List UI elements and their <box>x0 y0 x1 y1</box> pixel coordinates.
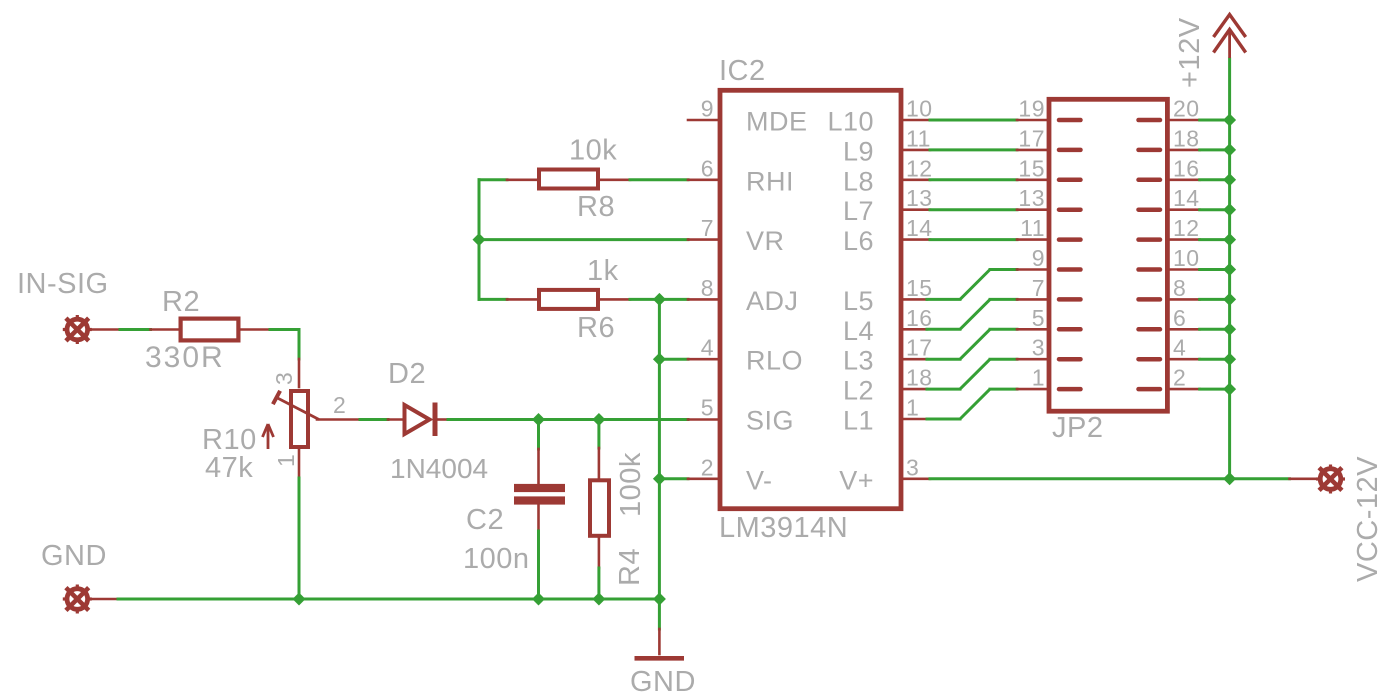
port label SIG of IC2 <box>746 406 794 436</box>
op-amp IC2 body <box>720 90 901 508</box>
junction bus row 9 <box>1223 353 1236 366</box>
svg-text:2: 2 <box>333 392 346 418</box>
svg-text:10: 10 <box>1173 245 1200 271</box>
svg-text:6: 6 <box>701 155 714 181</box>
junction bus row 10 <box>1223 383 1236 396</box>
wire SIG to C2 <box>537 420 540 484</box>
resistor R4 <box>590 480 609 536</box>
junction bus row 2 <box>1223 143 1236 156</box>
svg-text:4: 4 <box>1173 335 1186 361</box>
net label VCC-12V <box>1352 456 1384 582</box>
pin number 4 of IC2 <box>701 335 714 361</box>
svg-text:13: 13 <box>1018 185 1045 211</box>
resistor R6 <box>539 290 598 309</box>
pin contact left row 8 of JP2 <box>1059 327 1081 332</box>
label R4 <box>614 548 646 586</box>
pin number 8 of JP2 <box>1173 275 1186 301</box>
wire RLO to IC <box>659 358 717 361</box>
svg-text:14: 14 <box>906 215 933 241</box>
wire JP2 pin 20 to +12V bus <box>1170 119 1230 122</box>
pin number 9 of IC2 <box>701 96 714 122</box>
junction bus row 7 <box>1223 293 1236 306</box>
pin contact left row 4 of JP2 <box>1059 207 1081 212</box>
pin number 3 of JP2 <box>1032 335 1045 361</box>
svg-text:R8: R8 <box>577 191 615 223</box>
svg-text:11: 11 <box>1020 215 1045 241</box>
junction bus V+ <box>1223 472 1236 485</box>
svg-text:R6: R6 <box>577 312 615 344</box>
value 1N4004 <box>390 453 488 484</box>
svg-text:100k: 100k <box>615 452 647 517</box>
svg-text:6: 6 <box>1173 305 1186 331</box>
svg-text:12: 12 <box>906 155 933 181</box>
wire JP2 pin 2 to +12V bus <box>1170 388 1230 391</box>
port label L1 of IC2 <box>843 406 874 436</box>
svg-text:2: 2 <box>1173 365 1186 391</box>
wire IC L9 to JP2 <box>903 149 1049 152</box>
pin number 8 of IC2 <box>701 275 714 301</box>
net label GND left <box>41 540 107 572</box>
pin number 10 of IC2 <box>906 96 933 122</box>
wire JP2 pin 12 to +12V bus <box>1170 238 1230 241</box>
pin label 1 of R10 <box>273 454 299 467</box>
ground symbol <box>635 656 685 661</box>
junction bus row 1 <box>1223 114 1236 127</box>
label D2 <box>388 358 426 390</box>
svg-text:9: 9 <box>1032 245 1045 271</box>
pin number 1 of IC2 <box>906 395 919 421</box>
wire IC pin row 9 to JP2 diagonal <box>903 359 1049 389</box>
wire D2 to IC SIG pin <box>438 418 718 421</box>
junction rail GND stem <box>653 593 666 606</box>
pad GND <box>63 585 92 614</box>
pin number 6 of IC2 <box>701 155 714 181</box>
svg-text:18: 18 <box>1173 125 1200 151</box>
svg-text:16: 16 <box>906 305 933 331</box>
pin number 16 of IC2 <box>906 305 933 331</box>
svg-text:10: 10 <box>906 96 933 122</box>
wire IC L7 to JP2 <box>903 208 1049 211</box>
svg-text:+12V: +12V <box>1174 17 1206 88</box>
wire IC pin row 8 to JP2 diagonal <box>903 329 1049 359</box>
pin number 18 of IC2 <box>906 365 933 391</box>
svg-text:9: 9 <box>701 96 714 122</box>
value 100n <box>463 543 530 575</box>
svg-text:LM3914N: LM3914N <box>719 512 848 544</box>
pin number 12 of IC2 <box>906 155 933 181</box>
wire JP2 pin 4 to +12V bus <box>1170 358 1230 361</box>
wire JP2 pin 16 to +12V bus <box>1170 179 1230 182</box>
label R6 <box>577 312 615 344</box>
junction rail C2 <box>532 593 545 606</box>
pin number 7 of IC2 <box>701 215 714 241</box>
port label VR of IC2 <box>746 226 785 256</box>
svg-text:IC2: IC2 <box>719 55 766 87</box>
pin contact right row 9 of JP2 <box>1139 357 1161 362</box>
svg-text:11: 11 <box>906 125 931 151</box>
pin contact left row 9 of JP2 <box>1059 357 1081 362</box>
potentiometer R10 wiper <box>273 391 319 420</box>
svg-text:C2: C2 <box>466 504 504 536</box>
net label GND bottom <box>630 666 696 698</box>
svg-text:R4: R4 <box>614 548 646 586</box>
svg-text:20: 20 <box>1173 96 1200 122</box>
svg-text:100n: 100n <box>463 543 530 575</box>
svg-text:13: 13 <box>906 185 933 211</box>
svg-text:L9: L9 <box>843 136 874 166</box>
svg-text:R2: R2 <box>162 286 200 318</box>
svg-text:19: 19 <box>1018 96 1045 122</box>
wire to R6 <box>479 298 537 301</box>
pin contact right row 7 of JP2 <box>1139 297 1161 302</box>
wire ADJ net vertical <box>658 299 661 599</box>
value LM3914N <box>719 512 848 544</box>
port label L9 of IC2 <box>843 136 874 166</box>
label C2 <box>466 504 504 536</box>
port label L6 of IC2 <box>843 226 874 256</box>
supply symbol +12V <box>1214 15 1246 59</box>
svg-text:IN-SIG: IN-SIG <box>17 268 109 300</box>
svg-text:18: 18 <box>906 365 933 391</box>
svg-text:5: 5 <box>1032 305 1045 331</box>
value 100k of R4 <box>615 452 647 517</box>
svg-text:14: 14 <box>1173 185 1200 211</box>
ground rail wire <box>118 598 659 601</box>
svg-text:GND: GND <box>41 540 107 572</box>
port label RLO of IC2 <box>746 346 803 376</box>
junction bus row 3 <box>1223 173 1236 186</box>
junction at VR <box>473 233 486 246</box>
svg-text:3: 3 <box>906 454 919 480</box>
junction bus row 4 <box>1223 203 1236 216</box>
pin number 7 of JP2 <box>1032 275 1045 301</box>
junction RLO <box>653 353 666 366</box>
wire GND pad to rail <box>88 598 118 601</box>
GND symbol stem <box>658 599 661 654</box>
svg-text:15: 15 <box>906 275 933 301</box>
junction bus row 6 <box>1223 263 1236 276</box>
value 1k <box>587 255 619 287</box>
svg-text:L10: L10 <box>827 107 874 137</box>
svg-text:L2: L2 <box>843 376 874 406</box>
svg-text:V+: V+ <box>839 465 874 495</box>
pin number 5 of JP2 <box>1032 305 1045 331</box>
pin number 12 of JP2 <box>1173 215 1200 241</box>
svg-text:L7: L7 <box>843 196 874 226</box>
svg-text:1: 1 <box>1032 365 1045 391</box>
svg-text:GND: GND <box>630 666 696 698</box>
junction V- <box>653 472 666 485</box>
pad VCC-12V <box>1316 465 1345 494</box>
svg-text:L4: L4 <box>843 316 874 346</box>
pin number 13 of IC2 <box>906 185 933 211</box>
pin label 2 of R10 <box>333 392 346 418</box>
wire V- to IC <box>659 477 717 480</box>
junction SIG-R4 <box>592 413 605 426</box>
svg-text:12: 12 <box>1173 215 1200 241</box>
diode D2 <box>405 403 436 437</box>
wire R6 to IC ADJ pin <box>600 298 718 301</box>
port label L10 of IC2 <box>827 107 874 137</box>
svg-text:17: 17 <box>906 335 933 361</box>
junction ADJ <box>653 293 666 306</box>
wire R2 to R10 pin 3 <box>241 330 300 388</box>
svg-text:L8: L8 <box>843 166 874 196</box>
pin contact right row 4 of JP2 <box>1139 207 1161 212</box>
label IC2 <box>719 55 766 87</box>
port label V+ of IC2 <box>839 465 874 495</box>
resistor R2 <box>181 319 239 341</box>
wire IC L6 to JP2 <box>903 238 1049 241</box>
pin number 14 of IC2 <box>906 215 933 241</box>
svg-text:VR: VR <box>746 226 785 256</box>
pin stub MDE <box>688 119 718 122</box>
svg-text:L3: L3 <box>843 346 874 376</box>
value 330R <box>145 341 225 374</box>
svg-text:VCC-12V: VCC-12V <box>1352 456 1384 582</box>
svg-text:15: 15 <box>1018 155 1045 181</box>
pin number 17 of IC2 <box>906 335 933 361</box>
svg-text:SIG: SIG <box>746 406 794 436</box>
svg-text:2: 2 <box>701 454 714 480</box>
svg-text:10k: 10k <box>569 135 617 167</box>
svg-text:L5: L5 <box>843 286 874 316</box>
svg-text:4: 4 <box>701 335 714 361</box>
pin number 17 of JP2 <box>1018 125 1045 151</box>
svg-text:16: 16 <box>1173 155 1200 181</box>
value 47k <box>205 452 253 484</box>
pin contact right row 8 of JP2 <box>1139 327 1161 332</box>
resistor R8 <box>539 170 598 189</box>
wire IC L10 to JP2 <box>903 119 1049 122</box>
port label L7 of IC2 <box>843 196 874 226</box>
connector JP2 body <box>1049 99 1167 411</box>
port label V- of IC2 <box>746 465 773 495</box>
wire R4 to GND rail <box>598 538 601 599</box>
port label L3 of IC2 <box>843 346 874 376</box>
pin contact left row 2 of JP2 <box>1059 148 1081 153</box>
wire RHI to R8 <box>479 178 537 181</box>
pin contact left row 5 of JP2 <box>1059 237 1081 242</box>
potentiometer R10 arrow <box>263 424 274 449</box>
wire R10 pin1 to GND rail <box>298 449 301 599</box>
wire VR to IC <box>479 238 718 241</box>
pin contact left row 7 of JP2 <box>1059 297 1081 302</box>
pin contact right row 5 of JP2 <box>1139 237 1161 242</box>
capacitor C2 <box>514 484 565 505</box>
svg-text:47k: 47k <box>205 452 253 484</box>
pin number 1 of JP2 <box>1032 365 1045 391</box>
label R2 <box>162 286 200 318</box>
wire JP2 pin 6 to +12V bus <box>1170 328 1230 331</box>
wire IC pin row 10 to JP2 diagonal <box>903 389 1049 419</box>
junction bus row 5 <box>1223 233 1236 246</box>
wire pad IN-SIG to R2 <box>88 328 179 331</box>
port label MDE of IC2 <box>746 107 808 137</box>
svg-text:7: 7 <box>701 215 714 241</box>
pin number 4 of JP2 <box>1173 335 1186 361</box>
svg-text:5: 5 <box>701 395 714 421</box>
pin number 14 of JP2 <box>1173 185 1200 211</box>
port label L5 of IC2 <box>843 286 874 316</box>
pin number 18 of JP2 <box>1173 125 1200 151</box>
svg-text:ADJ: ADJ <box>746 286 799 316</box>
pin number 5 of IC2 <box>701 395 714 421</box>
pin contact left row 1 of JP2 <box>1059 118 1081 123</box>
pin contact right row 1 of JP2 <box>1139 118 1161 123</box>
port label L4 of IC2 <box>843 316 874 346</box>
pin contact left row 3 of JP2 <box>1059 178 1081 183</box>
pin number 13 of JP2 <box>1018 185 1045 211</box>
svg-text:7: 7 <box>1032 275 1045 301</box>
label R8 <box>577 191 615 223</box>
label JP2 <box>1052 412 1103 444</box>
pin contact left row 6 of JP2 <box>1059 267 1081 272</box>
pin number 10 of JP2 <box>1173 245 1200 271</box>
wire left vertical R8-R6 <box>478 180 481 300</box>
port label L2 of IC2 <box>843 376 874 406</box>
svg-text:V-: V- <box>746 465 773 495</box>
svg-text:L6: L6 <box>843 226 874 256</box>
pin number 11 of JP2 <box>1020 215 1045 241</box>
label R10 <box>202 424 257 456</box>
svg-text:1: 1 <box>273 454 299 467</box>
svg-text:JP2: JP2 <box>1052 412 1103 444</box>
wire JP2 pin 14 to +12V bus <box>1170 208 1230 211</box>
svg-text:3: 3 <box>1032 335 1045 361</box>
svg-text:MDE: MDE <box>746 107 808 137</box>
port label ADJ of IC2 <box>746 286 799 316</box>
pin contact right row 3 of JP2 <box>1139 178 1161 183</box>
pin number 6 of JP2 <box>1173 305 1186 331</box>
svg-text:330R: 330R <box>145 341 225 374</box>
svg-text:RLO: RLO <box>746 346 803 376</box>
port label L8 of IC2 <box>843 166 874 196</box>
pin number 20 of JP2 <box>1173 96 1200 122</box>
junction rail R10 <box>293 593 306 606</box>
svg-text:RHI: RHI <box>746 166 794 196</box>
junction bus row 8 <box>1223 323 1236 336</box>
svg-text:17: 17 <box>1018 125 1045 151</box>
value 10k <box>569 135 617 167</box>
pad IN-SIG <box>63 315 92 344</box>
wire IC pin row 6 to JP2 diagonal <box>903 270 1049 300</box>
wire R10 pin 2 to D2 <box>317 418 403 421</box>
pin number 2 of IC2 <box>701 454 714 480</box>
net label +12V <box>1174 17 1206 88</box>
pin number 2 of JP2 <box>1173 365 1186 391</box>
wire IC pin row 7 to JP2 diagonal <box>903 299 1049 329</box>
svg-text:8: 8 <box>701 275 714 301</box>
pin contact right row 2 of JP2 <box>1139 148 1161 153</box>
pin number 19 of JP2 <box>1018 96 1045 122</box>
svg-text:1N4004: 1N4004 <box>390 453 488 484</box>
pin number 3 of IC2 <box>906 454 919 480</box>
svg-text:1k: 1k <box>587 255 619 287</box>
pin label 3 of R10 <box>271 372 297 385</box>
svg-text:1: 1 <box>906 395 919 421</box>
junction rail R4 <box>592 593 605 606</box>
pin contact left row 10 of JP2 <box>1059 387 1081 392</box>
pin number 16 of JP2 <box>1173 155 1200 181</box>
wire SIG to R4 <box>597 420 600 479</box>
svg-text:3: 3 <box>271 372 297 385</box>
svg-text:8: 8 <box>1173 275 1186 301</box>
net label IN-SIG <box>17 268 109 300</box>
svg-text:L1: L1 <box>843 406 874 436</box>
wire JP2 pin 10 to +12V bus <box>1170 268 1230 271</box>
wire C2 to GND rail <box>537 505 540 599</box>
pin contact right row 6 of JP2 <box>1139 267 1161 272</box>
potentiometer R10 body <box>291 391 308 447</box>
wire +12V bus <box>1228 59 1231 479</box>
wire JP2 pin 8 to +12V bus <box>1170 298 1230 301</box>
pin number 15 of IC2 <box>906 275 933 301</box>
wire V+ to VCC pad <box>903 477 1319 480</box>
wire IC L8 to JP2 <box>903 179 1049 182</box>
svg-text:D2: D2 <box>388 358 426 390</box>
pin number 9 of JP2 <box>1032 245 1045 271</box>
port label RHI of IC2 <box>746 166 794 196</box>
wire R8 to IC RHI pin <box>600 179 718 182</box>
pin number 15 of JP2 <box>1018 155 1045 181</box>
pin contact right row 10 of JP2 <box>1139 387 1161 392</box>
junction SIG-C2 <box>532 413 545 426</box>
wire JP2 pin 18 to +12V bus <box>1170 149 1230 152</box>
pin number 11 of IC2 <box>906 125 931 151</box>
